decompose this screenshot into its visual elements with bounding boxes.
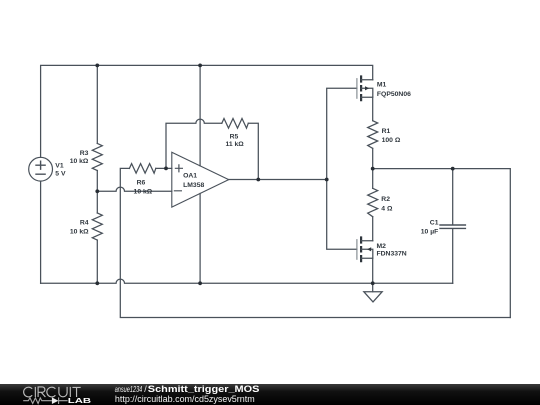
svg-text:R4: R4 [80, 220, 89, 227]
wire R3-R4 [96, 171, 98, 214]
wire op-amp V- pin [199, 194, 201, 284]
svg-text:V1: V1 [55, 163, 64, 170]
wire inverting input [97, 187, 172, 191]
capacitor C1 [452, 169, 454, 225]
wire R5 right to output [248, 123, 258, 179]
svg-text:5 V: 5 V [55, 171, 66, 178]
wire top rail [41, 65, 373, 157]
svg-text:FDN337N: FDN337N [377, 251, 407, 258]
wire R2 to M2 drain [372, 217, 374, 241]
resistor R4 [92, 213, 102, 240]
wire R4 bottom [96, 240, 98, 283]
node bottom rail / R4 [95, 281, 99, 285]
wire M2 source to rail [372, 258, 374, 283]
svg-text:10 µF: 10 µF [421, 229, 439, 236]
node R3/R4/inverting input [95, 189, 99, 193]
svg-text:4 Ω: 4 Ω [381, 205, 393, 212]
transistor M2 [357, 236, 373, 262]
node top rail / R3 [95, 64, 99, 68]
resistor R3 [92, 143, 102, 170]
svg-text:10 kΩ: 10 kΩ [134, 189, 153, 196]
wire bottom rail [41, 279, 453, 283]
svg-text:10 kΩ: 10 kΩ [70, 229, 89, 236]
svg-text:http://circuitlab.com/cd5zysev: http://circuitlab.com/cd5zysev5rntm [115, 394, 255, 404]
op-amp OA1 [172, 152, 229, 207]
svg-text:11 kΩ: 11 kΩ [225, 141, 244, 148]
wire M1 source to R1 [372, 97, 374, 121]
wire R2 top [372, 169, 374, 189]
resistor R2 [368, 188, 378, 216]
node bottom rail / op-amp V- [198, 281, 202, 285]
ground [372, 283, 374, 291]
wire midpoint to right [373, 169, 511, 318]
wire R3 branch top [96, 65, 98, 143]
wire R6 to noninverting input [156, 167, 172, 169]
node output / gate bus [325, 178, 329, 182]
svg-text:FQP50N06: FQP50N06 [377, 91, 411, 98]
node + input / feedback [164, 167, 168, 171]
logo CIRCUIT [24, 387, 81, 397]
svg-text:M2: M2 [377, 243, 387, 250]
svg-text:R1: R1 [382, 128, 391, 135]
svg-text:100 Ω: 100 Ω [382, 137, 401, 144]
resistor R5 [222, 119, 249, 129]
svg-text:R5: R5 [230, 134, 239, 141]
transistor M1 [357, 75, 373, 101]
node bottom rail / M2 source / ground [371, 281, 375, 285]
wire R6 left / feedback drop [120, 168, 510, 317]
svg-text:R3: R3 [80, 150, 89, 157]
svg-text:C1: C1 [430, 220, 439, 227]
node R1/R2 midpoint [371, 167, 375, 171]
node top rail / op-amp V+ [198, 64, 202, 68]
wire op-amp V+ pin [199, 65, 201, 165]
svg-text:OA1: OA1 [183, 173, 197, 180]
svg-text:10 kΩ: 10 kΩ [70, 158, 89, 165]
node C1 top [451, 167, 455, 171]
svg-text:LAB: LAB [68, 396, 92, 405]
logo resistor-diode glyph [23, 397, 67, 404]
wire R1 bottom [372, 148, 374, 168]
node output / R5 [256, 178, 260, 182]
svg-text:ansue1234: ansue1234 [115, 384, 143, 394]
wire feedback up from + input [166, 119, 222, 168]
svg-text:M1: M1 [377, 81, 387, 88]
footer bar [0, 384, 540, 405]
svg-text:R2: R2 [381, 196, 390, 203]
resistor R6 [129, 164, 155, 174]
svg-text:LM358: LM358 [183, 182, 204, 189]
wire V1 bottom [40, 181, 42, 283]
wire gate bus [327, 88, 357, 249]
wire output [229, 179, 327, 181]
resistor R1 [368, 121, 378, 149]
svg-text:R6: R6 [137, 180, 146, 187]
voltage source V1 [29, 157, 53, 181]
